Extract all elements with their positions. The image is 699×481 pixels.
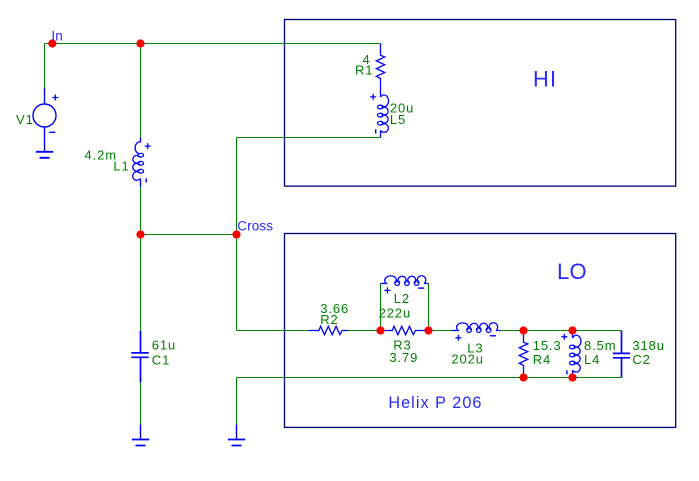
svg-text:61u: 61u xyxy=(152,337,176,352)
svg-text:3.79: 3.79 xyxy=(389,350,418,365)
svg-text:V1: V1 xyxy=(16,112,34,127)
svg-text:202u: 202u xyxy=(451,352,484,367)
svg-text:222u: 222u xyxy=(379,305,412,320)
svg-text:HI: HI xyxy=(533,66,557,91)
svg-text:L1: L1 xyxy=(113,159,129,174)
svg-text:Cross: Cross xyxy=(237,219,273,234)
svg-text:L4: L4 xyxy=(584,352,600,367)
svg-text:LO: LO xyxy=(557,259,587,284)
svg-text:R1: R1 xyxy=(355,63,373,78)
svg-text:L2: L2 xyxy=(394,291,410,306)
svg-text:In: In xyxy=(51,29,62,44)
svg-text:R2: R2 xyxy=(320,312,338,327)
svg-text:Helix P 206: Helix P 206 xyxy=(388,394,482,412)
svg-text:8.5m: 8.5m xyxy=(584,338,617,353)
svg-text:C2: C2 xyxy=(632,352,650,367)
svg-text:318u: 318u xyxy=(632,338,665,353)
svg-text:15.3: 15.3 xyxy=(533,338,562,353)
svg-text:L5: L5 xyxy=(390,112,406,127)
svg-text:R4: R4 xyxy=(533,352,551,367)
svg-text:4.2m: 4.2m xyxy=(85,148,118,163)
svg-text:C1: C1 xyxy=(152,353,170,368)
